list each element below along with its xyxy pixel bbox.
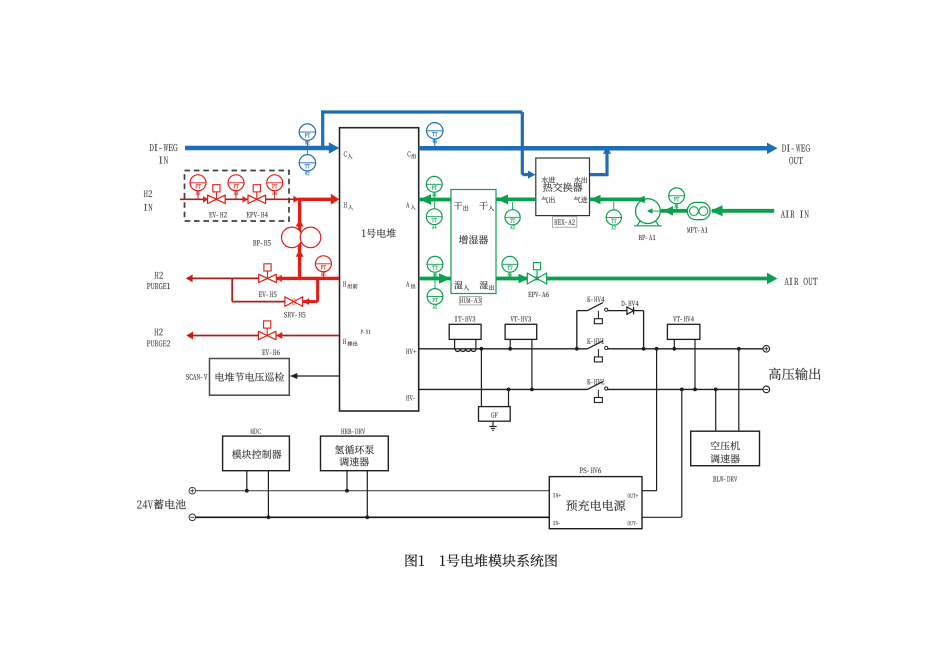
- wire humidifier 干出 to stack A入: [419, 198, 451, 202]
- wire battery - bus: [196, 516, 550, 518]
- sensor TT-A6 on A出: [434, 272, 436, 278]
- wire HV- bus: [419, 388, 588, 390]
- label MDC: [251, 429, 261, 434]
- stack port label A入: [406, 202, 409, 207]
- ground fault monitor GF box: [508, 389, 510, 406]
- label H2 PURGE2: [154, 329, 162, 336]
- stack port label A出: [406, 281, 409, 286]
- wire blower drive to HV+: [738, 349, 740, 431]
- flow meter MFT-A1: [687, 202, 710, 219]
- label EV-H6: [262, 350, 280, 356]
- arrow H2 PURGE2 out: [186, 332, 193, 340]
- stack port label HV+: [406, 349, 416, 354]
- wire DI-WEG OUT main line: [419, 146, 767, 151]
- precharge bypass left riser: [576, 311, 578, 349]
- flow arrow before EPV-H4: [243, 196, 249, 203]
- wire SRV bypass left drop: [231, 278, 233, 301]
- label BP-H5: [253, 240, 271, 245]
- junction dot bypass left: [575, 347, 579, 351]
- voltage transducer VT-HV4: [673, 339, 675, 348]
- wire H出前 thick segment: [276, 277, 339, 280]
- junction dot VT-HV4 on HV+: [672, 347, 676, 351]
- label 气进: [574, 197, 588, 203]
- stack port label H排出: [343, 339, 346, 344]
- valve EV-H5: [259, 274, 277, 282]
- wire DI-WEG IN main line: [185, 146, 329, 151]
- wire recirculation riser: [298, 199, 301, 278]
- junction dot OUT- on HV-: [680, 388, 684, 392]
- sensor TT-A2: [613, 202, 615, 211]
- wire blue branch riser: [321, 110, 324, 148]
- label 热交换器: [543, 183, 582, 192]
- arrow into stack C入: [329, 142, 340, 154]
- label 水出: [574, 177, 587, 183]
- fuel-cell stack 1号电堆: [340, 128, 419, 411]
- ground symbol under GF: [492, 421, 494, 426]
- heat exchanger HEX-A2 box: [536, 158, 590, 216]
- battery - terminal: [189, 514, 196, 521]
- sensor PT-H3: [235, 191, 237, 200]
- flow arrow into 气进: [590, 195, 601, 205]
- contactor K-HV2: [588, 381, 604, 389]
- label 24V蓄电池: [137, 499, 186, 509]
- sensor PT-A1: [676, 204, 678, 210]
- voltage transducer VT-HV3: [509, 339, 511, 348]
- junction dot HRB on - bus: [365, 515, 369, 519]
- junction dot bypass right: [642, 347, 646, 351]
- hydrogen pump BP-H5: [282, 227, 303, 248]
- label PS-HV6: [580, 468, 601, 474]
- wire H出前 purge line thin: [187, 277, 276, 279]
- wire HV+ bus: [419, 348, 588, 350]
- valve EV-H2: [208, 195, 226, 203]
- label EV-H5: [259, 292, 277, 297]
- junction dot GF on HV-: [507, 388, 511, 392]
- label 高压输出: [769, 368, 820, 380]
- wire stack A出 to humidifier 湿入: [419, 277, 451, 281]
- safety valve SRV-H5: [285, 297, 303, 307]
- arrow merge into out line: [603, 146, 611, 154]
- box 电堆节电压巡检: [210, 359, 290, 396]
- sensor PT-H5: [322, 272, 324, 279]
- wire battery + bus: [196, 490, 550, 492]
- stack sensor tag P-S1: [361, 330, 371, 334]
- wire H2 IN thick segment: [298, 198, 331, 201]
- label 气出: [542, 197, 555, 203]
- arrow into stack A入: [420, 194, 432, 205]
- junction dot HRB on + bus: [345, 489, 349, 493]
- label 干出: [454, 202, 462, 210]
- sensor TT-A6 after 湿出: [509, 272, 511, 278]
- precharge bypass top wire: [577, 310, 588, 312]
- label AIR IN: [781, 211, 809, 218]
- sensor PT-W2: [299, 124, 315, 140]
- flow arrow up below pump: [296, 250, 304, 257]
- wire BP-A1 outlet to HEX 气进: [590, 197, 646, 201]
- port label OUT-: [628, 521, 638, 525]
- hydrogen pump drive HRB box: [346, 471, 348, 491]
- label H2 IN: [144, 190, 152, 197]
- wire blue drop to heat exchanger 水进: [521, 112, 524, 175]
- terminal HV- output: [763, 386, 770, 393]
- stack port label C出: [407, 151, 410, 156]
- sensor TT-W2: [306, 140, 308, 154]
- label 湿入: [454, 281, 462, 289]
- arrow into MFT-A1: [711, 205, 723, 216]
- arrow AIR OUT: [767, 273, 778, 284]
- precharge power supply PS-HV6 box: [549, 477, 642, 529]
- caption 图1 1号电堆模块系统图: [406, 554, 558, 567]
- stack port label HV-: [406, 395, 415, 400]
- label BLW-DRV: [713, 476, 737, 481]
- sensor TT-A4: [433, 200, 435, 209]
- junction dot blower on HV-: [714, 388, 718, 392]
- battery + terminal: [189, 487, 196, 494]
- wire blower drive to HV-: [715, 389, 717, 431]
- wire precharge OUT- riser: [681, 389, 683, 517]
- air blower BP-A1: [637, 218, 659, 226]
- contactor K-HV1: [588, 341, 604, 349]
- valve EV-H6: [258, 331, 276, 339]
- wire SRV bypass right riser: [316, 278, 319, 301]
- label 水进: [542, 177, 556, 183]
- flow arrow before EV-H5: [276, 275, 282, 282]
- junction dot VT-HV3 on HV+: [508, 347, 512, 351]
- label DI-WEG IN: [150, 144, 178, 151]
- label H2 PURGE1: [155, 272, 163, 279]
- flow arrow before EV-H2: [203, 196, 209, 203]
- diode D-HV4: [627, 307, 634, 314]
- junction dot VT-HV4 on HV-: [693, 388, 697, 392]
- label DI-WEG OUT: [782, 144, 810, 151]
- module controller MDC box: [246, 471, 248, 491]
- junction dot blower on HV+: [737, 347, 741, 351]
- arrow into 水进: [528, 171, 536, 179]
- wire blue top line: [321, 110, 522, 113]
- wire 水出 to DI-WEG OUT: [590, 173, 608, 176]
- junction dot OUT+ on HV+: [655, 347, 659, 351]
- flow arrow up above pump: [296, 220, 304, 227]
- valve EPV-A6: [527, 273, 546, 284]
- precharge bypass right riser: [643, 311, 645, 349]
- port label OUT+: [628, 494, 638, 498]
- wire H排出 purge2 line: [188, 335, 340, 337]
- label SRV-H5: [284, 312, 305, 318]
- sensor TT-A3: [512, 202, 514, 210]
- label 湿出: [480, 281, 488, 289]
- label EPV-H4: [246, 212, 267, 218]
- wire H2 IN line thin: [180, 198, 300, 200]
- arrow into BP-A1: [663, 206, 673, 216]
- stack label 1号电堆: [362, 229, 396, 238]
- flow arrow into 干入: [497, 194, 508, 204]
- wire precharge OUT+ riser: [656, 349, 658, 491]
- arrow H2 PURGE1 out: [186, 274, 193, 282]
- wire SRV bypass bottom left: [232, 301, 284, 303]
- wire stack to SCAN-V box: [291, 375, 340, 377]
- flow arrow before EV-H6: [276, 332, 282, 339]
- label HRB-DRV: [341, 429, 365, 434]
- wire MFT to BP-A1: [661, 209, 687, 213]
- wire OUT+ to HV+ riser: [642, 490, 657, 492]
- sensor PT-H2: [197, 191, 199, 200]
- label 增湿器: [459, 235, 488, 244]
- stack port label H出前: [343, 281, 346, 286]
- junction dot MDC on - bus: [267, 515, 271, 519]
- stack port label H入: [344, 202, 347, 207]
- wire SRV bypass bottom right: [303, 300, 318, 303]
- wire OUT- to HV- riser: [642, 516, 682, 518]
- label AIR OUT: [784, 278, 817, 285]
- IT-HV3 coil on HV+ bus: [455, 349, 476, 352]
- current transducer IT-HV3: [454, 339, 456, 348]
- label SCAN-V: [186, 374, 208, 380]
- sensor TT-W6: [434, 139, 436, 146]
- wire 湿出 to AIR OUT: [496, 277, 767, 281]
- junction dot VT-HV3 on HV-: [530, 388, 534, 392]
- label box HUM-A3: [460, 296, 482, 305]
- arrow DI-WEG OUT: [767, 143, 778, 155]
- junction dot HV+ at GF tap: [480, 347, 484, 351]
- label 干入: [479, 202, 487, 210]
- arrow into 湿入: [439, 273, 451, 284]
- flow arrow at junction: [293, 196, 299, 203]
- flow arrow before SRV-H5: [303, 298, 309, 305]
- port label IN+: [553, 493, 561, 497]
- valve EPV-H4: [248, 195, 266, 203]
- port label IN-: [553, 521, 560, 525]
- sensor PT-H4: [274, 191, 276, 200]
- flow arrow on BP outlet: [636, 196, 645, 204]
- label EV-H2: [209, 212, 227, 217]
- wire AIR IN line: [712, 209, 774, 213]
- contactor K-HV4: [588, 303, 604, 311]
- air compressor drive box 空压机调速器: [691, 431, 760, 466]
- sensor PT-A4: [433, 192, 435, 199]
- wire GF tap from HV+: [480, 349, 482, 407]
- terminal HV+ output: [763, 346, 770, 353]
- dashed enclosure EV-H2 EPV-H4: [185, 171, 290, 222]
- arrow into SCAN-V box: [290, 373, 297, 379]
- arrow into stack H入: [331, 194, 340, 205]
- humidifier HUM-A3 box: [451, 190, 496, 294]
- stack port label C入: [344, 151, 347, 156]
- junction dot MDC on + bus: [245, 489, 249, 493]
- wire HEX 气出 to humidifier 干入: [496, 197, 536, 201]
- sensor PT-A5 on A出: [434, 279, 436, 289]
- label box HEX-A2: [553, 217, 577, 228]
- flow arrow before EPV-A6: [519, 274, 530, 283]
